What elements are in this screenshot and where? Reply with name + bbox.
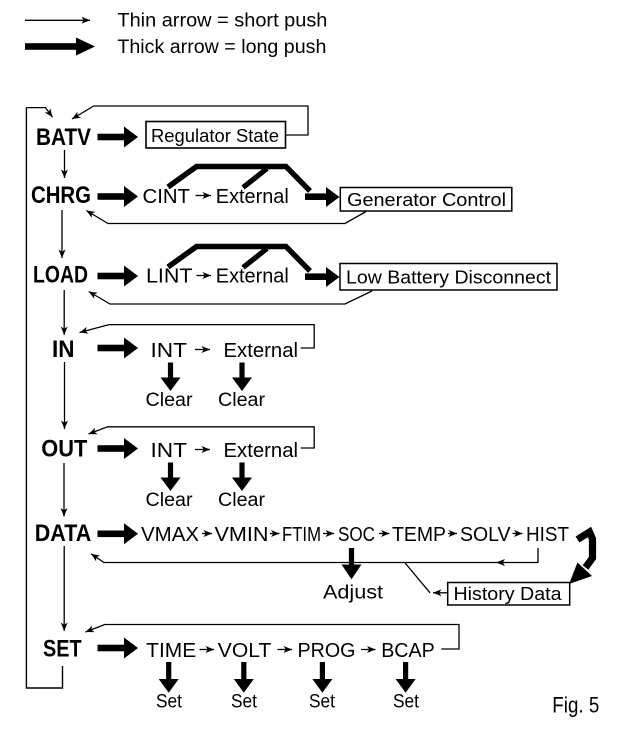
svg-text:TIME: TIME [146,640,196,662]
label SET [43,636,82,663]
svg-text:INT: INT [151,340,188,362]
thick down arrow TIME Set [159,662,179,693]
svg-text:Fig. 5: Fig. 5 [552,693,599,718]
thick arrow SET [98,638,139,659]
box Low Battery Disconnect [340,264,557,291]
item TIME [146,640,196,662]
text Fig. 5 [552,693,599,718]
svg-text:Set: Set [156,692,183,713]
svg-text:History Data: History Data [454,583,563,604]
svg-text:PROG: PROG [298,640,356,662]
text Set (TIME) [156,692,183,713]
legend text: Thin arrow = short push [117,10,327,31]
item LINT [146,266,193,288]
svg-text:Set: Set [393,692,420,713]
item External (CHRG row) [216,186,289,208]
text Adjust [323,583,384,604]
svg-text:LINT: LINT [146,266,193,288]
svg-text:FTIM: FTIM [282,524,321,546]
svg-text:SOLV: SOLV [460,524,511,546]
text Clear (OUT row, External) [218,490,266,511]
thick long-push branch from External (LOAD row) [243,249,267,268]
svg-text:Generator Control: Generator Control [347,189,506,210]
label BATV [36,124,91,151]
svg-text:Clear: Clear [218,490,266,511]
svg-text:VMAX: VMAX [141,524,199,546]
svg-text:External: External [216,266,289,288]
wire chain DATA to SET [63,546,65,631]
thin arrow FTIM to SOC [323,533,334,535]
item HIST [526,524,569,546]
svg-text:Thin arrow = short push: Thin arrow = short push [117,10,327,31]
svg-text:INT: INT [151,440,188,462]
svg-text:VOLT: VOLT [218,640,271,662]
thin arrow INT to External (OUT row) [195,449,210,451]
thick arrow CHRG [98,186,139,207]
svg-text:Thick arrow = long push: Thick arrow = long push [117,37,326,58]
svg-text:External: External [224,440,299,462]
svg-text:Clear: Clear [146,490,194,511]
thin arrow SOLV to HIST [513,533,523,535]
thin arrow VOLT to PROG [278,649,293,651]
svg-text:OUT: OUT [41,436,87,463]
thick down arrow VOLT Set [234,662,254,693]
wire HIST drop and return to DATA [91,548,538,563]
thin arrow VMIN to FTIM [270,533,280,535]
legend text: Thick arrow = long push [117,37,326,58]
svg-text:Adjust: Adjust [323,583,384,604]
wire bracket return External to OUT [89,427,315,448]
wire return from Generator Control to CHRG [86,211,366,224]
wire chain OUT to DATA [63,463,65,517]
thick arrow IN [98,338,139,359]
thin arrow PROG to BCAP [361,649,376,651]
wire chain BATV to CHRG [64,150,66,178]
svg-text:Clear: Clear [218,390,266,411]
wire chain CHRG to LOAD [61,210,63,258]
legend thin arrow [25,19,90,21]
item INT (OUT row) [151,440,188,462]
svg-text:TEMP: TEMP [392,524,446,546]
svg-text:Set: Set [309,692,336,713]
item FTIM [282,524,321,546]
label DATA [35,520,91,547]
box History Data [448,583,570,606]
thick down arrow PROG Set [312,662,332,693]
thick arrow LOAD [98,266,139,287]
label OUT [41,436,87,463]
svg-text:External: External [224,340,299,362]
thick hook arrow HIST to History Data [569,532,593,584]
svg-text:Set: Set [231,692,258,713]
item TEMP [392,524,446,546]
thin arrow TEMP to SOLV [448,533,457,535]
text Set (PROG) [309,692,336,713]
svg-text:LOAD: LOAD [33,262,88,289]
svg-text:VMIN: VMIN [215,524,269,546]
thin arrow INT to External (IN row) [195,349,210,351]
svg-text:CHRG: CHRG [31,182,91,209]
thick arrow DATA [98,523,139,544]
thin mid arrowhead on DATA return wire [496,559,505,566]
svg-text:HIST: HIST [526,524,569,546]
thin arrow LINT to External [197,275,212,277]
item SOC [338,524,375,546]
wire chain LOAD to IN [63,290,65,335]
text Set (VOLT) [231,692,258,713]
svg-text:Clear: Clear [146,390,194,411]
wire chain IN to OUT [64,362,66,429]
thick down arrow External Clear (IN row) [232,363,252,392]
text Clear (IN row, External) [218,390,266,411]
thick arrow BATV [98,127,139,148]
thick down arrow External Clear (OUT row) [232,463,252,492]
svg-text:Regulator State: Regulator State [151,125,279,146]
item VMAX [141,524,199,546]
svg-text:DATA: DATA [35,520,91,547]
wire branch to History Data [405,563,448,593]
item PROG [298,640,356,662]
thin arrow SOC to TEMP [379,533,390,535]
wire bracket return External to IN [80,325,315,348]
wire return from Regulator State to BATV [72,106,308,135]
thin arrow CINT to External [196,195,212,197]
outer loop wire (left frame, bottom, up to SET) [26,108,62,688]
thick long-push branch from External (CHRG row) [243,169,267,188]
wire return from Low Battery Disconnect to LOAD [89,291,372,304]
svg-text:IN: IN [52,336,75,363]
thick down arrow INT Clear (OUT row) [161,463,181,492]
item External (OUT row) [224,440,299,462]
box Regulator State [146,122,286,149]
svg-text:Low Battery Disconnect: Low Battery Disconnect [346,267,551,288]
svg-text:CINT: CINT [143,186,191,208]
svg-text:SOC: SOC [338,524,375,546]
thick down arrow BCAP Set [396,662,416,693]
item External (IN row) [224,340,299,362]
thick long-push wire LINT to Low Battery Disconnect [168,247,340,288]
item External (LOAD row) [216,266,289,288]
item INT (IN row) [151,340,188,362]
text Clear (OUT row, INT) [146,490,194,511]
thick arrow OUT [98,438,139,459]
label IN [52,336,75,363]
item SOLV [460,524,511,546]
svg-text:SET: SET [43,636,82,663]
wire bracket return BCAP to SET [86,625,460,650]
text Set (BCAP) [393,692,420,713]
legend thick arrow [25,38,95,56]
thick down arrow INT Clear (IN row) [161,363,181,392]
item BCAP [381,640,435,662]
svg-text:BATV: BATV [36,124,91,151]
thin arrow TIME to VOLT [200,649,215,651]
text Clear (IN row, INT) [146,390,194,411]
thick long-push wire CINT to Generator Control [168,167,340,208]
thick down arrow Adjust [342,548,362,579]
wire hook from outer loop into BATV [26,108,52,118]
item VOLT [218,640,271,662]
svg-text:BCAP: BCAP [381,640,435,662]
item CINT [143,186,191,208]
label CHRG [31,182,91,209]
thin arrow VMAX to VMIN [202,533,212,535]
box Generator Control [340,188,512,212]
item VMIN [215,524,269,546]
label LOAD [33,262,88,289]
svg-text:External: External [216,186,289,208]
